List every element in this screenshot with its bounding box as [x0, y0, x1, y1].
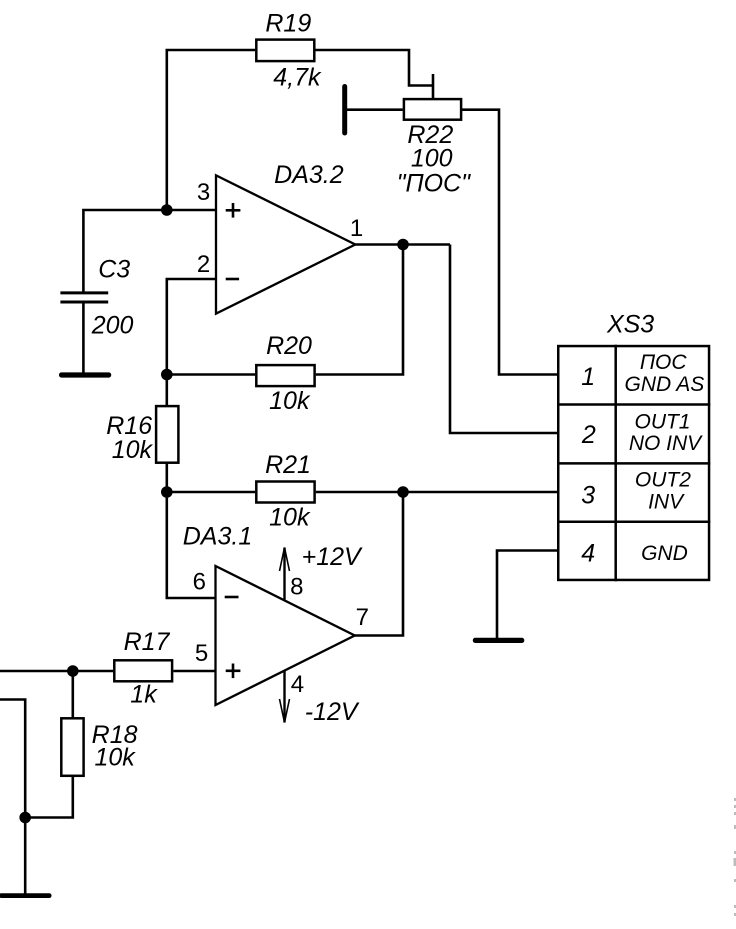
svg-text:NO INV: NO INV — [629, 432, 703, 455]
svg-text:ПОС: ПОС — [640, 351, 688, 374]
edge artifact marks — [734, 798, 736, 916]
resistor R18 — [61, 718, 83, 776]
svg-text:1: 1 — [350, 215, 363, 242]
wire R16 bottom lead — [166, 463, 169, 492]
op-amp DA3.1 — [216, 566, 355, 705]
svg-text:OUT1: OUT1 — [634, 411, 690, 434]
wire node A to C3 — [83, 210, 166, 293]
wire node D to DA3.1 pin 6 — [167, 492, 216, 598]
wire input to R17 — [0, 670, 113, 673]
connector XS3 outline — [558, 346, 709, 580]
minus sign DA3.1 — [225, 596, 239, 599]
svg-text:R21: R21 — [265, 451, 311, 479]
wire DA3.2 output to node C — [355, 243, 450, 246]
svg-text:10k: 10k — [94, 743, 136, 771]
svg-text:8: 8 — [290, 574, 303, 601]
node F junction dot — [67, 665, 79, 677]
wiper stub of R22 — [432, 74, 435, 98]
svg-text:INV: INV — [648, 491, 685, 514]
svg-text:4: 4 — [291, 671, 304, 698]
XS3 column divider — [614, 345, 617, 581]
XS3 row line 1-2 — [557, 403, 710, 406]
svg-text:1: 1 — [581, 363, 595, 391]
wire R19 right lead to R22 wiper — [316, 50, 434, 86]
node G junction dot — [19, 812, 31, 824]
svg-text:100: 100 — [411, 144, 453, 172]
minus sign DA3.2 — [226, 278, 239, 281]
svg-text:10k: 10k — [269, 387, 311, 415]
XS3 row line 3-4 — [557, 520, 710, 523]
svg-text:OUT2: OUT2 — [635, 469, 691, 492]
plus sign DA3.1 — [226, 664, 241, 679]
svg-text:2: 2 — [581, 421, 596, 449]
XS3 row line 2-3 — [557, 462, 710, 465]
terminal bar left of R22 — [342, 84, 347, 136]
svg-text:DA3.1: DA3.1 — [183, 523, 252, 551]
svg-text:4: 4 — [581, 540, 595, 568]
svg-text:-12V: -12V — [305, 698, 360, 726]
ground under XS3 pin 4 — [473, 638, 525, 643]
wire terminal bar to R22 — [347, 108, 403, 111]
wire XS3 pin 4 to ground — [497, 551, 557, 639]
svg-text:R20: R20 — [266, 332, 312, 360]
svg-text:4,7k: 4,7k — [273, 64, 322, 92]
node C junction dot — [397, 239, 409, 251]
resistor R19 — [256, 40, 314, 62]
svg-text:200: 200 — [91, 312, 134, 340]
wire R22 right lead to XS3 pin 1 — [462, 110, 558, 375]
svg-text:3: 3 — [581, 482, 595, 510]
wire pin 2 to node B — [167, 279, 216, 375]
svg-text:5: 5 — [195, 640, 208, 667]
svg-text:"ПОС": "ПОС" — [397, 170, 471, 198]
potentiometer R22 — [404, 99, 461, 120]
svg-text:DA3.2: DA3.2 — [274, 161, 344, 189]
wire R19 left lead to node A — [167, 50, 255, 210]
svg-text:1k: 1k — [130, 681, 158, 709]
svg-text:2: 2 — [197, 251, 210, 278]
wire node C to XS3 pin 2 — [450, 245, 557, 434]
svg-text:R17: R17 — [124, 628, 171, 656]
wire node D to R21 — [167, 491, 255, 494]
svg-text:R19: R19 — [265, 9, 311, 37]
wire R21 right to XS3 pin 3 — [316, 491, 557, 494]
wire R18 top lead — [72, 671, 75, 718]
node E junction dot — [397, 486, 409, 498]
op-amp DA3.2 — [216, 175, 355, 313]
wire C3 to ground — [82, 304, 85, 373]
wire R17 to pin 5 — [173, 670, 215, 673]
wire node B to R20 — [167, 373, 255, 376]
node B junction dot — [161, 369, 173, 381]
wire R20 right to node C — [316, 245, 403, 375]
resistor R16 — [156, 406, 178, 463]
resistor R21 — [256, 482, 314, 503]
node D junction dot — [161, 486, 173, 498]
plus sign DA3.2 — [226, 203, 241, 218]
svg-text:GND AS: GND AS — [625, 373, 705, 396]
wire R16 top lead — [166, 375, 169, 407]
power pin 4 arrow -12V — [280, 670, 290, 723]
wire node A to pin 3 — [167, 209, 216, 212]
svg-text:GND: GND — [641, 542, 688, 565]
ground under C3 — [59, 372, 111, 377]
svg-text:7: 7 — [356, 604, 369, 631]
resistor R20 — [256, 365, 314, 386]
svg-text:XS3: XS3 — [606, 311, 654, 339]
svg-text:10k: 10k — [112, 436, 154, 464]
wire input 2 bend — [0, 700, 25, 818]
node A junction dot — [161, 204, 173, 216]
ground bottom left — [0, 893, 52, 898]
svg-text:6: 6 — [193, 569, 206, 596]
wire DA3.1 output to node E — [355, 492, 403, 636]
svg-text:10k: 10k — [269, 504, 311, 532]
wire node G to ground — [24, 818, 27, 894]
power pin 8 arrow +12V — [280, 548, 290, 600]
svg-text:+12V: +12V — [302, 543, 363, 571]
resistor R17 — [114, 660, 172, 681]
svg-text:C3: C3 — [98, 256, 130, 284]
capacitor C3 — [60, 293, 108, 302]
svg-text:3: 3 — [197, 179, 210, 206]
wire R18 bottom to node G — [25, 775, 73, 818]
